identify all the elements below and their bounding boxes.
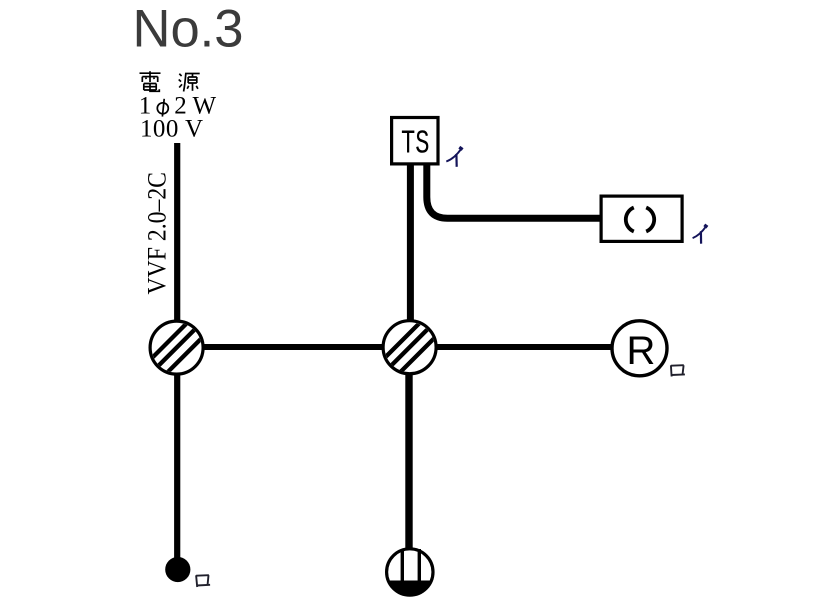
label イ at ceiling rose: [693, 225, 708, 244]
title No.3: [133, 0, 244, 59]
wire W3 TS left pin down to J2: [407, 164, 414, 330]
power source label 源: [179, 74, 200, 92]
junction box J2 (VVF joint box) with hatching: [373, 310, 448, 385]
ceiling light round body: [387, 549, 433, 596]
cable label VVF 2.0-2C: [143, 172, 172, 295]
hook ceiling body (square) with ( ): [601, 196, 682, 241]
svg-text:TS: TS: [401, 125, 430, 163]
power source label 電源 (kanji drawn as paths): [140, 71, 161, 91]
switch ロ (single-pole): [165, 557, 190, 582]
wire W7 J2 down to ceiling light: [405, 360, 412, 551]
source spec 100V: [140, 115, 203, 142]
wire W1 source down through J1 to switch: [174, 143, 180, 560]
電: [140, 72, 161, 74]
svg-text:VVF 2.0–2C: VVF 2.0–2C: [143, 172, 172, 295]
timer switch TS (box): [392, 118, 438, 164]
svg-text:100 V: 100 V: [140, 115, 203, 142]
lamp receptacle R: [612, 321, 667, 376]
label ロ at lamp receptacle: [671, 365, 685, 376]
label ロ at switch: [196, 575, 210, 587]
svg-text:R: R: [626, 329, 655, 373]
svg-text:No.3: No.3: [133, 0, 244, 59]
junction box J1 (VVF joint box) with hatching: [140, 311, 215, 386]
label イ at TS: [446, 147, 462, 167]
wire W5 J2 to lamp receptacle R: [410, 344, 613, 350]
wire W4 TS right pin to ceiling rose, curved corner: [427, 164, 602, 218]
wire W2 J1 to J2 horizontal: [176, 344, 410, 350]
source spec 1φ2W: [139, 93, 217, 120]
